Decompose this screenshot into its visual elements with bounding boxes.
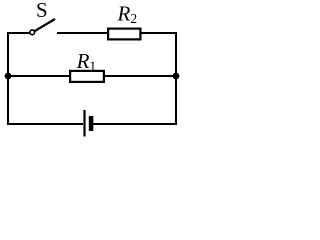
wire right vertical [175,32,177,125]
resistor R1 [70,71,104,82]
wire bottom-left segment [7,123,83,125]
node junction right [173,73,180,80]
svg-text:R2: R2 [117,2,138,27]
switch S [30,19,54,34]
wire middle-left segment [8,75,70,77]
battery cell [85,110,94,137]
wire bottom-right segment [93,123,177,125]
wire left vertical [7,32,9,125]
wire top-middle segment [57,32,108,34]
wire top-left segment [8,32,30,34]
node junction left [5,73,12,80]
wire middle-right segment [104,75,176,77]
svg-text:S: S [36,0,48,22]
svg-text:R1: R1 [76,49,97,73]
wire top-right segment [141,32,178,34]
resistor R2 [108,29,140,40]
